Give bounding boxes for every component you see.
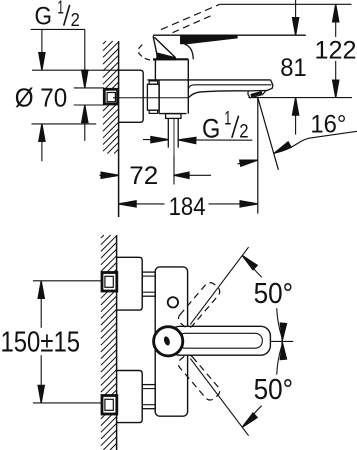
union fitting upper (thick square) (102, 273, 117, 292)
50deg arc upper segment B (246, 259, 261, 277)
stem centerline (173, 119, 175, 157)
50deg arc lower arrowheads (280, 342, 286, 360)
150+-15 extension lines (33, 281, 102, 403)
handle front curve (185, 44, 194, 59)
svg-text:184: 184 (169, 193, 206, 221)
svg-text:16°: 16° (310, 111, 346, 139)
text 50deg upper (254, 278, 294, 310)
svg-text:81: 81 (280, 54, 307, 82)
dashed handle at -50deg (176, 352, 222, 402)
svg-text:50°: 50° (254, 278, 294, 310)
union extension lines (74, 88, 104, 105)
union fitting lower (thick square) (102, 396, 117, 415)
svg-text:G: G (35, 2, 53, 30)
50deg boundary line upper (190, 247, 248, 324)
escutcheon (side view) (119, 70, 144, 122)
svg-text:122: 122 (315, 36, 357, 64)
body bottom (159, 113, 186, 115)
faucet body upper (153, 58, 188, 60)
arrow down to union top line (82, 70, 88, 88)
handle lever (filled wedge) (180, 35, 238, 44)
top reference line (raised handle height) (220, 3, 352, 5)
diverter screw circle (168, 297, 178, 307)
shower outlet stem (167, 118, 169, 147)
handle knuckle (153, 36, 158, 59)
handle boss (thick circle) (154, 327, 183, 356)
aerator (248, 91, 266, 98)
wall (top view) (116, 235, 118, 450)
150+-15 dimension line with arrows (40, 281, 42, 328)
escutcheon upper (top view) (117, 257, 143, 310)
inlet centerline (113, 97, 188, 99)
label G1/2 wall union thread (top-left) (35, 0, 80, 30)
body / spout top line (147, 79, 270, 81)
union inner detail (107, 93, 115, 102)
knuckle foot dark wedge (156, 52, 176, 60)
dashed raised handle bottom edge (173, 15, 214, 33)
left pointer to stem (143, 139, 168, 141)
svg-text:1: 1 (224, 108, 231, 129)
spout underside (189, 91, 249, 98)
16 deg vertical reference / 184 extension (257, 98, 259, 214)
connection nut lower (top view) (142, 385, 155, 409)
dashed handle at +50deg (176, 280, 222, 330)
O70 extension lines (32, 29, 119, 161)
50deg boundary line lower (190, 358, 248, 435)
dashed raised handle top edge (161, 4, 220, 29)
shower outlet flange (166, 114, 181, 119)
svg-text:2: 2 (71, 10, 80, 30)
50deg arc lower segment A (277, 346, 282, 374)
connection nut upper (top view) (142, 272, 155, 296)
wall hatching (side view) (103, 41, 119, 154)
50deg arc upper arrowheads (280, 323, 286, 341)
spout tip (266, 80, 273, 91)
50deg arc upper segment A (277, 308, 282, 336)
faucet body (top view, rounded rect) (155, 267, 187, 416)
faucet body left edge lower (158, 80, 160, 114)
text 50deg lower (254, 374, 294, 406)
svg-text:150±15: 150±15 (1, 326, 81, 358)
svg-text:50°: 50° (254, 374, 294, 406)
dimension 122 (335, 20, 337, 37)
faucet body right edge (187, 59, 189, 113)
wall hatching (top view) (101, 235, 117, 450)
G1/2 outlet leader line with arrow (178, 139, 252, 141)
svg-text:2: 2 (239, 121, 248, 142)
handle axis centerline (270, 340, 293, 342)
dimension O70 text (15, 83, 67, 113)
16 deg slanted line (258, 98, 279, 170)
16 deg arc with arrow (274, 131, 357, 153)
16 deg left arrow (238, 160, 258, 164)
wall union fitting (thick square) (104, 89, 117, 104)
G1/2 leader underline and bend (31, 29, 85, 72)
dashed raised handle rear knob (139, 45, 156, 60)
dimension 184 (119, 203, 165, 205)
50deg arc lower segment B (246, 406, 261, 424)
lever bar inner contour (178, 333, 262, 348)
outlet level reference line (248, 97, 352, 99)
O70 arrows (39, 53, 45, 70)
handle lever bar (top view) (170, 326, 270, 355)
text 16deg (310, 111, 346, 139)
handle lever top edge + 81 reference line (153, 34, 306, 36)
arrow up to union bottom line (84, 105, 86, 141)
dimension 72 (99, 174, 104, 176)
wall (side view) (118, 41, 120, 217)
lever pin blob (163, 336, 171, 347)
spout inner top line (189, 85, 272, 89)
svg-text:1: 1 (57, 0, 64, 18)
connection nut (147, 84, 159, 110)
svg-text:G: G (202, 113, 220, 143)
escutcheon lower (top view) (117, 371, 143, 423)
svg-text:Ø 70: Ø 70 (15, 83, 67, 113)
svg-text:72: 72 (129, 162, 158, 190)
label G1/2 shower outlet (202, 108, 249, 143)
dimension 81 (295, 0, 297, 19)
